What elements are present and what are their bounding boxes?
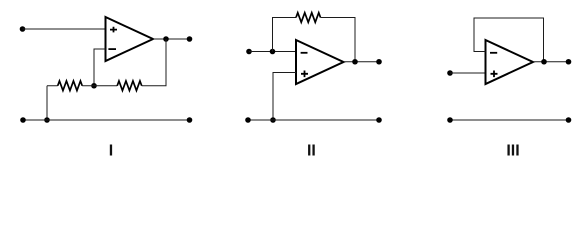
node: output terminal II [376,59,382,65]
U1 minus symbol [108,48,116,50]
U3 minus symbol [490,52,497,54]
node: bottom-left terminal III [447,117,453,123]
node: bottom-right terminal I [187,117,193,123]
node: bottom-right terminal III [566,117,572,123]
wire: left resistor lead [47,85,58,87]
op-amp U2 [296,40,344,84]
resistor R1 [58,81,82,91]
node: input terminal III [447,70,453,76]
node: input terminal II [246,49,252,55]
node: output junction II [352,59,358,65]
U1 plus symbol [110,27,117,33]
wire: + input of U2 to ground rail [273,73,296,121]
wire: U2 output [344,61,380,63]
wire: bottom rail II [248,119,379,121]
wire: between R1 and R2 [82,85,117,87]
wire: feedback left vertical [273,18,297,52]
U2 minus symbol [301,52,308,54]
op-amp U1 [106,17,154,61]
wire: bottom rail III [450,119,569,121]
wire: R1 left lead down to ground rail [46,86,48,120]
wire: U3 output [533,61,569,63]
svg-text:I: I [109,142,113,159]
wire: input to - input of U2 [249,51,296,53]
wire: input to + input of U1 [23,28,106,30]
node: output terminal III [566,59,572,65]
node: bottom-left terminal I [20,117,26,123]
op-amp U3 [486,40,534,84]
wire: inverting input of U1 down to resistor junction [94,49,106,86]
wire: U1 output [153,38,190,40]
U2 plus symbol [301,71,308,78]
svg-text:II: II [307,142,316,159]
node: bottom-right terminal II [376,117,382,123]
wire: bottom rail I [23,119,190,121]
node: output terminal I [187,36,193,42]
wire: R2 to output junction [142,39,166,86]
node: bottom-left terminal II [245,117,251,123]
wire: input to + input of U3 [450,72,486,74]
resistor R2 [117,81,142,91]
node: input terminal I [20,26,26,32]
resistor R3 (feedback) [296,13,321,23]
node: inverting input junction II [270,49,276,55]
node: output junction III [541,59,547,65]
wire: feedback right down to output [321,18,356,62]
node: junction between R1 and R2 [91,83,97,89]
node: output junction I [163,36,169,42]
node: ground junction I [44,117,50,123]
svg-text:III: III [506,142,519,159]
node: ground junction II [270,117,276,123]
U3 plus symbol [491,71,498,78]
wire: feedback loop of U3 [474,18,544,62]
